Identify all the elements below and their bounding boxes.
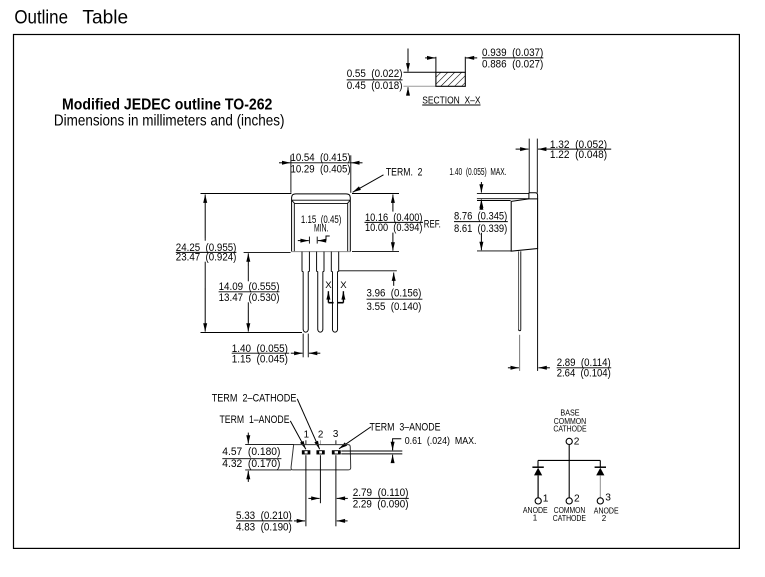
- svg-text:1: 1: [543, 493, 549, 504]
- svg-text:8.61 (0.339): 8.61 (0.339): [454, 223, 507, 235]
- svg-text:Modified JEDEC outline TO-262: Modified JEDEC outline TO-262: [62, 96, 273, 113]
- svg-text:REF.: REF.: [424, 218, 441, 230]
- svg-text:Dimensions in millimeters and: Dimensions in millimeters and (inches): [54, 112, 285, 129]
- svg-text:0.61 (.024) MAX.: 0.61 (.024) MAX.: [405, 436, 477, 447]
- svg-text:2.79 (0.110): 2.79 (0.110): [353, 487, 409, 499]
- svg-text:TERM 3–ANODE: TERM 3–ANODE: [370, 422, 441, 434]
- svg-text:1: 1: [304, 429, 309, 440]
- svg-text:0.939 (0.037): 0.939 (0.037): [482, 47, 543, 59]
- svg-text:TERM. 2: TERM. 2: [386, 167, 423, 179]
- svg-text:2: 2: [574, 493, 580, 504]
- svg-text:2: 2: [574, 436, 580, 447]
- svg-text:13.47 (0.530): 13.47 (0.530): [219, 292, 280, 304]
- svg-text:MIN.: MIN.: [314, 222, 328, 234]
- svg-text:2: 2: [602, 514, 607, 523]
- svg-text:3.55 (0.140): 3.55 (0.140): [367, 301, 422, 313]
- svg-text:TERM 1–ANODE: TERM 1–ANODE: [220, 414, 290, 426]
- svg-text:X: X: [340, 280, 347, 291]
- svg-text:Outline: Outline: [14, 7, 68, 28]
- svg-text:2: 2: [318, 429, 323, 440]
- svg-text:CATHODE: CATHODE: [553, 514, 586, 523]
- svg-text:10.54 (0.415): 10.54 (0.415): [291, 152, 351, 164]
- svg-text:Table: Table: [82, 7, 128, 28]
- svg-text:0.886 (0.027): 0.886 (0.027): [482, 58, 543, 70]
- svg-text:1.40 (0.055) MAX.: 1.40 (0.055) MAX.: [449, 167, 506, 178]
- svg-text:2.64 (0.104): 2.64 (0.104): [557, 368, 611, 380]
- svg-text:TERM 2–CATHODE: TERM 2–CATHODE: [212, 393, 297, 405]
- svg-text:4.57 (0.180): 4.57 (0.180): [222, 446, 280, 458]
- svg-text:1.22 (0.048): 1.22 (0.048): [550, 149, 607, 161]
- svg-text:4.83 (0.190): 4.83 (0.190): [236, 521, 292, 533]
- svg-text:3: 3: [333, 429, 339, 440]
- svg-text:10.29 (0.405): 10.29 (0.405): [291, 163, 351, 175]
- svg-text:0.55 (0.022): 0.55 (0.022): [347, 68, 403, 80]
- svg-text:4.32 (0.170): 4.32 (0.170): [222, 458, 280, 470]
- svg-text:8.76 (0.345): 8.76 (0.345): [454, 211, 507, 223]
- svg-text:23.47 (0.924): 23.47 (0.924): [176, 252, 237, 264]
- svg-text:2.29 (0.090): 2.29 (0.090): [353, 499, 409, 511]
- svg-text:5.33 (0.210): 5.33 (0.210): [236, 510, 292, 522]
- svg-text:3: 3: [605, 493, 611, 504]
- svg-text:CATHODE: CATHODE: [553, 425, 586, 434]
- svg-text:3.96 (0.156): 3.96 (0.156): [367, 288, 422, 300]
- svg-text:10.00 (0.394): 10.00 (0.394): [365, 222, 423, 234]
- svg-text:1: 1: [533, 514, 538, 523]
- svg-text:0.45 (0.018): 0.45 (0.018): [347, 80, 403, 92]
- svg-text:X: X: [325, 280, 332, 291]
- svg-text:1.15 (0.045): 1.15 (0.045): [232, 354, 288, 366]
